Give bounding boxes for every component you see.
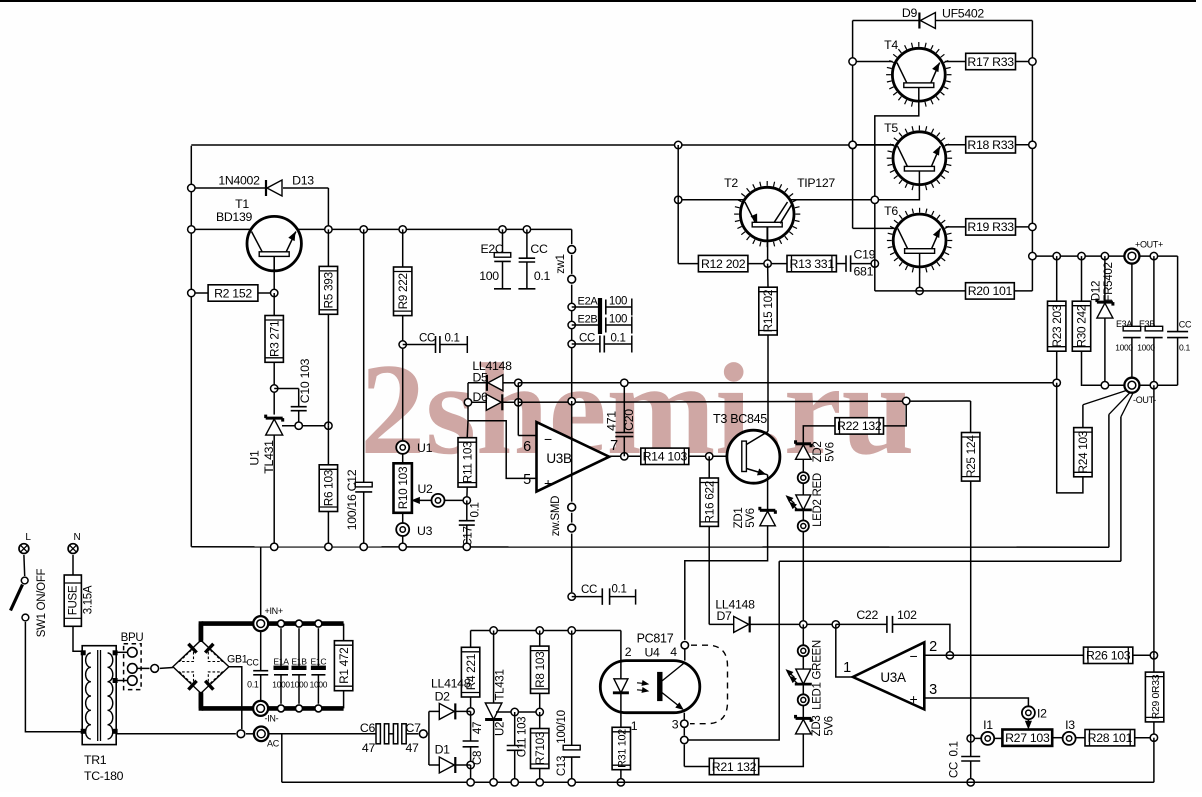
wire -OUT row [1082,384,1177,386]
node E3B top [1150,252,1157,259]
svg-text:5V6: 5V6 [745,508,757,528]
opto pin4 lead [681,642,688,661]
capacitor CC 0.1 (R9 row) [403,333,468,354]
node R17 right [1029,58,1036,65]
wire T4 collector jog [875,101,919,291]
wiper arrow R10 [412,498,431,504]
wire R29 column [1153,385,1155,672]
wire T2 collector lead [767,227,769,264]
wire U3B output [609,455,641,457]
svg-text:CC: CC [419,333,435,345]
wire I1 row [971,737,982,739]
node D7 LED column [800,621,807,628]
svg-text:U4: U4 [644,646,660,660]
node 630 U2 [490,627,497,634]
svg-text:T6: T6 [884,204,898,218]
wire U1 to R10 [402,454,404,464]
node R4 rail [467,779,474,786]
node T2 bus left [675,196,682,203]
capacitor CC 0.1 (zw row) [572,333,632,353]
wire ZD1 anode to pin4 [685,526,768,640]
node left border R2 [188,289,195,296]
node D6 zw junction [568,398,575,405]
thick bus +IN [201,621,344,642]
node C22 to pin2 [946,652,953,659]
wire R13 to C19 [836,263,846,265]
resistor R19 R33 [966,219,1033,235]
node R11-C17 [463,497,470,504]
node 630 R8 [536,627,543,634]
wire TR-block right edge [1031,21,1033,291]
node C20 top [621,379,628,386]
svg-text:N: N [74,532,81,543]
svg-text:zw.SMD: zw.SMD [550,496,562,536]
op-amp U3A [843,639,937,709]
svg-text:C13: C13 [556,756,568,776]
svg-text:3: 3 [672,718,679,732]
jumper zw.SMD [550,401,576,592]
fuse FUSE 3.15A [64,555,94,626]
wire R20 row [875,290,966,292]
svg-text:R17 R33: R17 R33 [967,55,1014,69]
led LED1 GREEN [787,624,824,710]
svg-text:FR5402: FR5402 [1103,262,1115,301]
node C10 bottom [295,422,302,429]
resistor R31 102 [612,713,630,783]
jumper zw1 [555,246,576,284]
wire R3 to U1 [273,362,275,414]
node R26 R29 [1150,652,1157,659]
resistor R14 103 [641,448,742,464]
svg-text:CC: CC [246,658,259,668]
node R25 rail [967,779,974,786]
svg-text:R5 393: R5 393 [322,271,336,308]
wire TR1 to BPU [115,652,127,680]
wire -OUT fan line561 [1121,393,1133,561]
svg-text:I1: I1 [983,718,993,732]
wire U3A pin2 row [924,654,1083,656]
capacitor C22 102 [836,608,950,655]
svg-text:5V6: 5V6 [824,716,836,736]
svg-text:U2: U2 [495,722,507,736]
wire fork [427,711,430,765]
terminal I1 [981,718,994,745]
wire T1 emitter lead [273,256,275,293]
node R23 bottom [1053,379,1060,386]
node E2A row [568,303,575,310]
jumper pin3 [681,720,688,727]
svg-text:E2A: E2A [578,296,599,308]
svg-text:R25 124: R25 124 [964,435,978,478]
node T6 collector R20 row [916,287,923,294]
node R5 top [325,226,332,233]
svg-text:R27 103: R27 103 [1005,731,1050,745]
node E1A bottom [278,705,285,712]
node CC mid tap [568,593,575,600]
node E1B top [296,620,303,627]
resistor R2 152 [191,285,274,301]
wire T5 collector jog [875,185,920,200]
wire 561 line [779,560,1121,562]
wire -OUT fan R24 [1083,390,1127,427]
resistor R16 622 [700,456,718,624]
capacitor E1A 1000 [272,628,290,704]
node C13 rail [568,779,575,786]
resistor R8 103 [531,631,549,713]
capacitor C8 47 [463,711,484,765]
svg-text:R8 103: R8 103 [533,651,547,688]
svg-text:681: 681 [854,265,874,279]
wire C8 to rail [470,765,472,782]
node C20 bottom [621,453,628,460]
svg-text:0.1: 0.1 [611,584,626,596]
svg-text:R29 0R33: R29 0R33 [1151,674,1162,719]
diode D13 1N4002 [218,174,314,197]
svg-text:R26 103: R26 103 [1086,649,1131,663]
dashed package outline [690,645,728,724]
node E1B bottom [296,705,303,712]
svg-text:R12 202: R12 202 [701,257,746,271]
wire top border / T5 base bus y=145 [191,144,894,146]
capacitor CC 0.1 (R25) [949,738,981,782]
optocoupler U4 PC817 [600,632,700,734]
svg-text:7: 7 [610,438,618,454]
svg-text:1: 1 [843,660,851,676]
svg-text:−: − [910,648,918,664]
node top bus x=678 [675,141,682,148]
svg-text:TR1: TR1 [84,753,107,767]
transistor T4 [884,38,951,107]
resistor R21 132 [709,734,803,775]
transformer TR1 TC-180 [81,646,123,783]
svg-text:U1: U1 [417,441,433,455]
svg-text:U3B: U3B [546,451,572,466]
svg-text:zw1: zw1 [555,254,567,274]
resistor R11 103 [458,421,476,501]
svg-text:TL431: TL431 [262,440,276,474]
svg-text:T3 BC845: T3 BC845 [713,412,767,426]
svg-text:R13 331: R13 331 [789,257,834,271]
capacitor E2C 100 [479,229,511,288]
svg-text:BD139: BD139 [216,210,253,224]
diode D2 LL4148 [429,677,471,720]
svg-text:R18 R33: R18 R33 [967,138,1014,152]
svg-text:1000: 1000 [272,680,290,690]
wire U3A pin3 row [924,698,1028,707]
resistor R17 R33 [966,53,1033,69]
wire bottom rail [282,781,1154,783]
wire C10 branch [274,389,299,407]
svg-text:47: 47 [472,722,484,734]
wire bus 547 [191,546,1109,548]
potentiometer R10 103 [394,463,412,513]
svg-text:LED1 GREEN: LED1 GREEN [812,640,824,710]
svg-text:−: − [544,431,552,447]
node bus R6 [325,543,332,550]
node R12-R13-R15 [764,260,771,267]
svg-text:471: 471 [605,411,619,431]
svg-text:-IN-: -IN- [265,713,279,723]
node T5 base [849,141,856,148]
switch SW1 ON/OFF [11,555,49,637]
node left border T1 base [188,226,195,233]
svg-text:0.1: 0.1 [949,741,961,756]
node R23 top [1053,252,1060,259]
svg-text:R6 103: R6 103 [322,469,336,506]
svg-text:T1: T1 [235,197,249,211]
svg-text:ZD2: ZD2 [812,442,824,463]
node R8 R7 [536,708,543,715]
svg-text:R19 R33: R19 R33 [967,220,1014,234]
svg-text:C19: C19 [854,248,876,262]
node U2 rail [490,779,497,786]
svg-text:TC-180: TC-180 [84,769,124,783]
terminal U2 [417,482,466,507]
svg-text:0.1: 0.1 [470,502,482,517]
wire T3 emitter [767,475,769,511]
capacitor C13 100/10 [556,631,580,783]
svg-text:R30 242: R30 242 [1075,305,1089,348]
svg-text:D7: D7 [716,609,732,623]
terminal N [68,532,80,553]
resistor R15 102 [759,264,777,335]
zener ZD3 5V6 [796,706,836,737]
wire pin3 column [684,713,709,767]
svg-text:102: 102 [897,608,917,622]
node C11 rail [511,779,518,786]
svg-text:R7103: R7103 [533,731,547,765]
svg-text:AC: AC [267,739,280,749]
wire D13 row [191,188,328,229]
capacitor E2A 100 [572,296,632,316]
wire 630 left corner [470,631,472,648]
thick bus -IN [201,692,344,711]
node E1A top [278,620,285,627]
svg-text:1000: 1000 [290,680,308,690]
wire R15 to T3 collector [767,335,769,432]
wire bridge right corner [229,667,242,729]
svg-text:FUSE: FUSE [68,585,80,615]
svg-text:U2: U2 [417,482,433,496]
svg-text:D13: D13 [292,174,314,188]
svg-text:T5: T5 [884,121,898,135]
wire U3A pin1 [836,624,853,677]
node T1-R2 junction [271,289,278,296]
svg-text:+: + [910,691,918,707]
capacitor C10 103 [291,358,312,425]
wire I1 to R27 [994,737,1002,739]
zener ZD2 5V6 [796,440,837,462]
wire U2 ref row [496,711,540,713]
node CC top [523,226,530,233]
svg-text:3.15A: 3.15A [83,585,95,614]
svg-text:D12: D12 [1091,281,1103,301]
svg-text:SW1 ON/OFF: SW1 ON/OFF [36,568,48,637]
capacitor CC 0.1 (output) [1167,320,1192,353]
node E1C top [315,620,322,627]
diode D5 LL4148 [472,359,512,391]
node bus C17 [463,543,470,550]
wire fuse to TR1 [73,626,83,651]
svg-text:E1C: E1C [310,657,326,667]
resistor R20 101 [966,283,1033,299]
node D12 bottom [1101,382,1108,389]
node C19 right [871,260,878,267]
wire +OUT row [1032,255,1177,257]
transistor T3 BC845 [713,412,780,483]
svg-text:CC: CC [530,242,548,256]
connector BPU [121,632,144,690]
svg-text:1000: 1000 [1137,343,1155,353]
bridge rectifier GB1 [173,640,248,693]
node top bus x=852.6 [849,141,856,148]
node 630 zw [568,627,575,634]
terminal L [19,532,31,553]
resistor R13 331 [787,255,836,271]
svg-text:L: L [25,532,31,543]
wire D6 row [468,401,518,403]
wire zw1 column [571,285,573,401]
node C10 tap [271,385,278,392]
diode D9 UF5402 [853,6,1033,29]
svg-text:T2: T2 [724,176,738,190]
top border line [0,0,1196,2]
led LED2 RED [787,472,825,532]
svg-text:1: 1 [631,719,638,733]
terminal AC [254,727,280,749]
wire rail drop from AC [281,734,283,783]
jumper C7 fork [419,730,427,738]
terminal +IN+ [253,606,283,631]
svg-text:T4: T4 [884,38,898,52]
node -OUT R29 col [1150,382,1157,389]
svg-text:PC817: PC817 [637,632,674,646]
wire T5 emitter to R18 [945,144,965,146]
svg-text:R3 271: R3 271 [267,321,281,357]
resistor R1 472 [334,624,352,709]
svg-text:E1A: E1A [273,657,289,667]
watermark 2shemi.ru [360,337,914,482]
wire pin5 path [468,421,537,479]
svg-text:6: 6 [523,439,531,455]
svg-text:R14 103: R14 103 [643,450,688,464]
jumper pin3 lower [681,736,688,743]
resistor R7 103 [531,712,549,782]
capacitor C6 47 [360,721,394,755]
resistor R18 R33 [966,137,1033,153]
wire AC row [115,733,376,735]
opto LED [613,661,648,713]
wire D5-D6 left column [467,383,469,421]
svg-text:D9: D9 [902,6,918,20]
wire T6 collector [919,267,921,291]
terminal U3 [396,513,432,547]
node D2 C8 [467,708,474,715]
node T3 base [706,453,713,460]
resistor R24 103 [1074,428,1092,477]
svg-text:R9 222: R9 222 [396,273,410,309]
terminal I2 [1022,706,1047,720]
wire T4 base [853,61,893,63]
wire U1 ref row [282,425,328,427]
node R30 top [1078,252,1085,259]
node R19 right [1029,223,1036,230]
svg-text:1000: 1000 [310,680,328,690]
capacitor C17 0.1 [459,500,482,546]
svg-text:ZD3: ZD3 [811,716,823,737]
svg-text:BPU: BPU [121,632,144,644]
capacitor C11 103 [507,712,529,782]
svg-text:E1B: E1B [291,657,307,667]
wire T2 base bus [678,199,875,201]
svg-text:47: 47 [406,741,420,755]
diode D12 FR5402 [1091,256,1116,385]
transistor T2 TIP127 [724,176,835,247]
svg-text:E2C: E2C [480,242,503,256]
shunt reference U1 TL431 [248,415,283,547]
svg-text:R10 103: R10 103 [396,466,410,509]
node R31 rail [617,779,624,786]
node bus R9 [399,543,406,550]
svg-text:D1: D1 [435,743,451,757]
svg-text:C20: C20 [622,409,636,431]
node C12 top [360,226,367,233]
svg-text:CC: CC [579,333,595,345]
svg-text:D2: D2 [435,690,451,704]
svg-text:100: 100 [479,269,499,283]
diode D1 LL4148 [429,743,471,774]
node R28 R29 bottom [1150,734,1157,741]
svg-text:C6: C6 [360,721,376,735]
svg-text:I3: I3 [1065,718,1075,732]
wire R12 left column [678,145,698,264]
node CC row zw [568,340,575,347]
svg-text:+OUT+: +OUT+ [1135,240,1163,250]
node C11 top [511,708,518,715]
node D6 left [464,399,471,406]
svg-text:R20 101: R20 101 [968,284,1013,298]
svg-text:R21 132: R21 132 [712,760,757,774]
node CC tap R9 [399,341,406,348]
wire D5 bus [518,382,1057,384]
node bus C12 [360,543,367,550]
node R7 rail [536,779,543,786]
diode D6 LL4148 [472,390,502,410]
terminal -OUT- [1124,378,1156,405]
svg-text:LED2 RED: LED2 RED [812,473,824,527]
resistor R12 202 [698,255,748,271]
svg-text:47: 47 [362,741,376,755]
svg-text:+IN+: +IN+ [265,606,283,616]
svg-text:5: 5 [523,472,531,488]
wire R12-R13 [748,263,787,265]
svg-text:2: 2 [625,645,632,659]
svg-text:100: 100 [609,296,627,308]
node E2C top [499,226,506,233]
svg-text:C22: C22 [856,608,878,622]
capacitor E2B 100 [572,314,632,334]
svg-text:R31 102: R31 102 [617,729,629,768]
zener ZD1 5V6 [733,507,775,529]
resistor R30 242 [1072,256,1090,385]
node E2B row [568,321,575,328]
opto transistor [658,663,685,710]
capacitor E1C 1000 [310,628,328,704]
wire 630 line [471,631,621,661]
wiper arrow I2 [1026,719,1032,728]
wire +IN column [260,547,262,616]
wire pin3 to 561 [684,561,779,740]
